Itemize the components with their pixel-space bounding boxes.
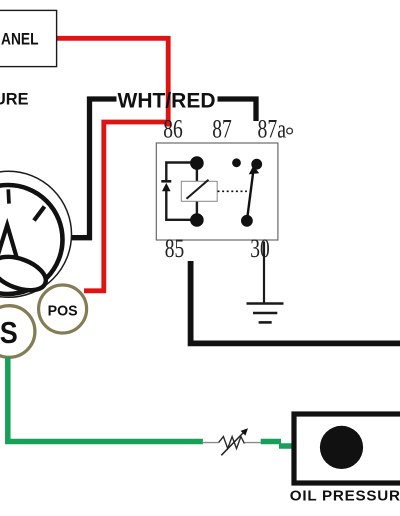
coil bottom lead <box>196 201 198 220</box>
diode cathode bar <box>161 180 171 183</box>
relay coil left branch wire <box>166 163 197 182</box>
relay pin 87 contact dot <box>232 158 241 167</box>
gauge needle <box>0 225 17 263</box>
gauge tick right <box>34 207 45 221</box>
terminal POS circle <box>39 285 87 333</box>
coil top lead <box>196 163 198 181</box>
wire thick black from relay 85 to right edge <box>191 261 400 343</box>
gauge dial base ellipse <box>0 250 50 296</box>
diode triangle <box>162 183 171 191</box>
pin label 87a circle mark <box>287 128 293 134</box>
svg-text:85: 85 <box>165 234 185 263</box>
wire green jog into sender box <box>279 443 293 449</box>
diode lower wire <box>166 191 197 220</box>
resistor lead left <box>203 442 219 444</box>
box oil pressure sender <box>294 414 400 483</box>
relay pin 85 dot <box>190 213 204 227</box>
wire black WHT/RED gauge to relay 87a, left part <box>64 99 117 238</box>
box fuse panel <box>0 10 57 66</box>
ground symbol <box>247 302 284 305</box>
sender port black circle <box>320 426 363 469</box>
relay switch arrowhead <box>249 166 259 175</box>
svg-text:ANEL: ANEL <box>1 29 39 48</box>
svg-text:S: S <box>0 315 18 350</box>
relay pin 87a contact dot <box>251 159 262 170</box>
terminal S circle <box>0 306 35 358</box>
relay switch arm <box>247 174 253 221</box>
resistor arrow shaft <box>221 432 244 456</box>
relay pin 30 dot <box>241 215 253 227</box>
gauge outer circle <box>0 171 72 297</box>
svg-text:87: 87 <box>212 114 232 143</box>
wire red branch to gauge POS <box>84 122 168 291</box>
relay pin 86 dot <box>190 156 204 170</box>
resistor lead right <box>244 442 260 444</box>
svg-text:URE: URE <box>0 90 29 109</box>
resistor arrow head <box>241 428 248 435</box>
svg-text:WHT/RED: WHT/RED <box>118 90 216 113</box>
svg-text:30: 30 <box>250 234 270 263</box>
variable resistor zigzag <box>219 437 245 449</box>
wire pin30 to ground <box>263 242 265 304</box>
svg-text:POS: POS <box>48 302 78 319</box>
gauge tick mid <box>6 189 10 203</box>
relay box <box>156 143 278 240</box>
coil diagonal stroke <box>187 180 209 199</box>
gauge inner bezel circle <box>0 185 63 294</box>
svg-text:OIL PRESSURE: OIL PRESSURE <box>290 488 400 505</box>
svg-text:86: 86 <box>163 114 183 143</box>
wire red from panel to relay 86 <box>57 38 169 126</box>
svg-text:87a: 87a <box>258 114 287 143</box>
coil box <box>181 181 217 201</box>
wire black WHT/RED right part <box>218 99 257 121</box>
relay actuator dotted link <box>218 190 247 192</box>
wire green right of resistor <box>261 439 281 445</box>
wire green from S to sender <box>8 357 203 442</box>
